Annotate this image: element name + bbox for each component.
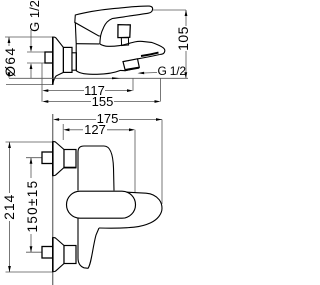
dimension 155 (48, 101, 91, 103)
svg-text:105: 105 (175, 26, 191, 51)
G1/2 arrow to stub (144, 72, 157, 75)
button foot (121, 38, 128, 46)
svg-text:Ø64: Ø64 (2, 47, 18, 77)
top union nut (plan) (64, 150, 76, 168)
dimension 105 line (185, 10, 187, 26)
spout underside to stub (138, 55, 160, 59)
spout blob (plan) (99, 192, 162, 229)
outlet stub (side view) (123, 59, 139, 71)
bottom union nut (plan) (64, 246, 76, 264)
step ring (72, 53, 76, 70)
extension 214 bottom (6, 271, 54, 273)
G1/2 pipe extension lines (27, 51, 45, 53)
small square button (118, 25, 130, 38)
dimension 117 (48, 90, 84, 92)
extension line x=160.5 (155 right) (160, 78, 162, 101)
extension x=135 (127 right) down to lever (134, 130, 136, 196)
wall line (52, 114, 54, 285)
extension line top of escutcheon (O64 upper) (5, 36, 53, 38)
neck curve lower part (99, 36, 102, 44)
arrow down O64 (8, 72, 11, 78)
dimension O64 line (8, 37, 10, 46)
extension line top (105 upper, y=10) (153, 9, 186, 11)
dimension 175 (59, 119, 96, 121)
spout top edge (side view) (100, 41, 165, 54)
body belly (side view) (76, 70, 125, 74)
lever capsule (plan) (67, 191, 136, 218)
extension x=162 (175 right) down to spout (161, 120, 163, 205)
dimension 214 (9, 142, 11, 193)
body (plan) (78, 146, 114, 191)
svg-text:214: 214 (1, 194, 17, 220)
extension 150+-15 top (26, 157, 44, 159)
stub bottom thick edge (125, 68, 140, 71)
bottom pipe stub (plan) (42, 247, 53, 259)
lever neck rear edge (74, 22, 77, 43)
lever blade (75, 6, 153, 36)
top pipe stub (plan) (42, 152, 53, 164)
arrow up O64 (8, 37, 11, 43)
body top edge (76, 43, 99, 45)
svg-text:155: 155 (92, 94, 114, 109)
arrow right on y=78.3 line (112, 77, 121, 79)
extension line bottom of escutcheon (O64 lower) (6, 83, 53, 85)
long reference line y=78.3 from O64 dim to 105 dim (9, 77, 188, 79)
svg-text:150±15: 150±15 (25, 179, 40, 232)
svg-text:G 1/2: G 1/2 (158, 64, 187, 78)
G1/2 leader top arrow (down) (30, 30, 32, 46)
union nut (side view) (63, 47, 72, 72)
body left edge (75, 44, 77, 71)
G1/2 lower arrow (up) (30, 69, 32, 78)
dimension 150+-15 (30, 158, 32, 178)
escutcheon back plate (52, 37, 54, 85)
dimension 127 (69, 129, 83, 131)
bottom escutcheon cone (plan) (53, 238, 64, 272)
top escutcheon cone (plan) (53, 142, 64, 176)
extension x=63.2 (127 left) down to cone (62, 124, 64, 140)
extension 214 top (6, 141, 54, 143)
pipe stub (side view) (45, 52, 53, 63)
svg-text:127: 127 (84, 122, 106, 137)
extension line x=133 (117 right) (132, 78, 134, 90)
extension 150+-15 bottom (26, 251, 44, 253)
spout lip thick (141, 53, 159, 56)
escutcheon cone (side view) (53, 37, 64, 85)
svg-text:G 1/2: G 1/2 (27, 0, 42, 32)
extension line x=42 (wall, down from pipe) (41, 63, 43, 102)
